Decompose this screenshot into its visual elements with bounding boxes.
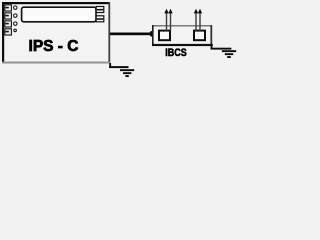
indicator LED D2: [14, 14, 17, 18]
box U1 IPS-C chassis: [2, 2, 110, 64]
antenna A2 shafts: [195, 13, 200, 31]
indicator LED D1: [14, 6, 17, 10]
junction J1: [149, 31, 155, 37]
box U2 IBCS: [152, 25, 213, 46]
antenna A2 arrowheads: [194, 9, 202, 14]
antenna A1 arrowheads: [164, 9, 172, 14]
svg-text:IPS - C: IPS - C: [29, 38, 79, 55]
module icon M2: [5, 13, 12, 19]
module icon M4: [5, 29, 12, 35]
antenna base connector X2: [194, 31, 205, 41]
indicator LED D3: [14, 22, 17, 26]
ground GND1: [120, 69, 134, 77]
indicator LED D4: [14, 29, 17, 32]
module icon M3: [5, 21, 12, 27]
wire W3 IPS-C to ground left: [109, 63, 128, 68]
wire W1 IPS-C to IBCS: [110, 33, 160, 36]
module icon M1: [5, 5, 12, 11]
port icon P2: [96, 16, 104, 22]
ground GND2: [222, 50, 236, 58]
wire W2 IBCS to ground right: [211, 46, 232, 50]
port icon P1: [96, 7, 104, 13]
antenna base connector X1: [159, 31, 170, 41]
label IBCS: [165, 47, 187, 59]
svg-text:IBCS: IBCS: [165, 47, 187, 59]
label IPS - C: [29, 38, 79, 55]
display slot: [22, 7, 96, 22]
antenna A1 shafts: [166, 13, 171, 31]
